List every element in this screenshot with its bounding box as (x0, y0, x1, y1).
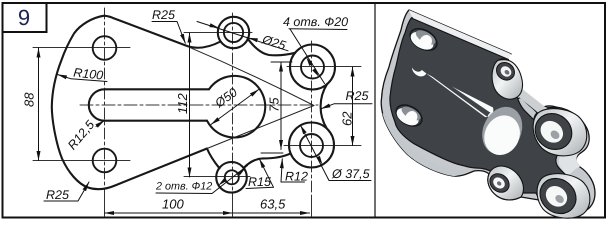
wire: thin lower web edge to convergence point (207, 106, 314, 149)
top boss hole (d12) (224, 23, 243, 42)
svg-text:9: 9 (18, 5, 30, 30)
3D top boss cylinder (492, 60, 522, 99)
centerline: vertical through centre bosses (232, 13, 234, 196)
3D bottom lug cylinder (537, 174, 590, 219)
top-right lug hole (d20) (301, 56, 324, 79)
svg-text:62: 62 (340, 111, 355, 126)
3D bottom lug hole (542, 182, 572, 211)
3D top boss hole (499, 64, 514, 79)
leader R12 (281, 159, 305, 182)
fillet from top boss to top lug (248, 39, 295, 56)
bottom-right lug outer circle (d37.5) (289, 123, 334, 168)
leader R100 (58, 75, 108, 82)
top-right lug outer circle (d37.5) (290, 45, 335, 90)
hole bottom-left (d20) (93, 149, 117, 173)
leader d37,5 (301, 125, 372, 180)
svg-text:4 отв. Ф20: 4 отв. Ф20 (283, 15, 348, 29)
d25 dimension line through top boss (197, 22, 288, 51)
centerline: horizontal slot axis (80, 104, 318, 106)
centerline: horizontal through bottom-left hole (also 88 extension) (33, 160, 130, 162)
3D web light band (lower side of boss-lug web) (509, 84, 549, 115)
svg-text:R15: R15 (248, 175, 271, 189)
svg-text:2 отв. Ф12: 2 отв. Ф12 (155, 181, 212, 193)
svg-text:100: 100 (162, 197, 184, 212)
dimension 75 extension bottom (261, 152, 283, 154)
extension line: right vertical to bottom dimension (311, 196, 313, 217)
leader R25 bottom-left (44, 182, 89, 201)
dimension 88 line (38, 48, 40, 161)
centerline: horizontal through top-left hole (also 88 extension) (33, 47, 130, 49)
3D top lug hole (536, 116, 567, 147)
3D hole lower-left (392, 101, 425, 131)
3D bottom boss cylinder (488, 166, 524, 200)
leader 2 otv d12 (156, 166, 248, 194)
bottom boss outer circle (d25 boss) (216, 162, 247, 193)
centerline: horizontal through bottom boss (also 112 extension) (184, 176, 250, 178)
dimension 62 line (352, 67, 354, 146)
leader R25 right (321, 104, 372, 109)
dimension 112 line (189, 33, 191, 177)
3D bottom lug dark top (533, 171, 583, 221)
3D part: light side-wall silhouette base (381, 10, 595, 215)
bottom boss hole (d12) (225, 170, 239, 184)
svg-text:75: 75 (267, 97, 282, 112)
3D slot interior (412, 64, 493, 118)
extension line: left vertical to bottom dimension (104, 196, 106, 217)
saddle from bottom lug to bottom boss (R12, R15 fillets) (244, 153, 291, 168)
3D top boss dark top (493, 59, 518, 84)
centerline: horizontal through bottom-right lug (also 62 extension) (284, 145, 361, 147)
bottom-right lug hole (d20) (300, 134, 323, 157)
leader R15 (246, 159, 274, 189)
circle d50 (207, 76, 265, 138)
svg-text:R25: R25 (346, 89, 369, 103)
svg-text:R25: R25 (152, 8, 175, 22)
top boss outer circle (d25 boss) (218, 17, 249, 48)
leader R25 top (152, 22, 185, 44)
3D side-wall top edge band highlight (409, 10, 511, 60)
3D top lug cylinder (533, 109, 587, 156)
3D hole upper-left (406, 24, 440, 54)
3D side-wall bottom band shading (383, 113, 471, 176)
separator line between drawing and 3D view (374, 3, 376, 217)
leader R12,5 (96, 121, 104, 127)
dimension 63,5 line (233, 212, 310, 214)
svg-text:63,5: 63,5 (260, 197, 286, 212)
centerline: horizontal through top-right lug (also 62 extension) (287, 66, 361, 68)
svg-text:R25: R25 (46, 188, 69, 202)
notch arc R25 between lugs (321, 84, 327, 128)
centerline: vertical through left holes and slot cap (104, 8, 106, 196)
leader 4 otv d20 (289, 28, 347, 31)
d25 arrows (209, 23, 218, 27)
extension line: centre vertical to bottom dimension (232, 196, 234, 217)
dimension 100 line (105, 212, 233, 214)
sheet number box (3, 3, 47, 32)
slot edges (R12.5 keyway to d50 circle) (89, 89, 209, 120)
3D bottom boss dark top (486, 170, 513, 196)
hole top-left (d20) (93, 36, 117, 60)
d50 dimension line (211, 89, 259, 124)
centerline: horizontal through top boss (also 112 extension) (184, 32, 252, 34)
svg-text:112: 112 (175, 93, 190, 114)
part outline (52, 16, 221, 190)
3D bottom boss hole (491, 175, 507, 191)
svg-text:Ø 37,5: Ø 37,5 (331, 167, 370, 181)
wire: thin upper web edge to convergence point (186, 46, 314, 106)
svg-text:R12: R12 (285, 170, 308, 184)
3D top lug dark top (528, 106, 579, 157)
3D dark top face (390, 18, 580, 206)
dimension 75 line (280, 62, 282, 150)
dimension 75 extension top (271, 61, 292, 63)
centerline: vertical through right lugs (311, 41, 313, 196)
3D notch saddle highlight between lugs (559, 146, 582, 176)
svg-text:88: 88 (22, 92, 37, 107)
3D circle d50 interior wall (475, 100, 530, 160)
